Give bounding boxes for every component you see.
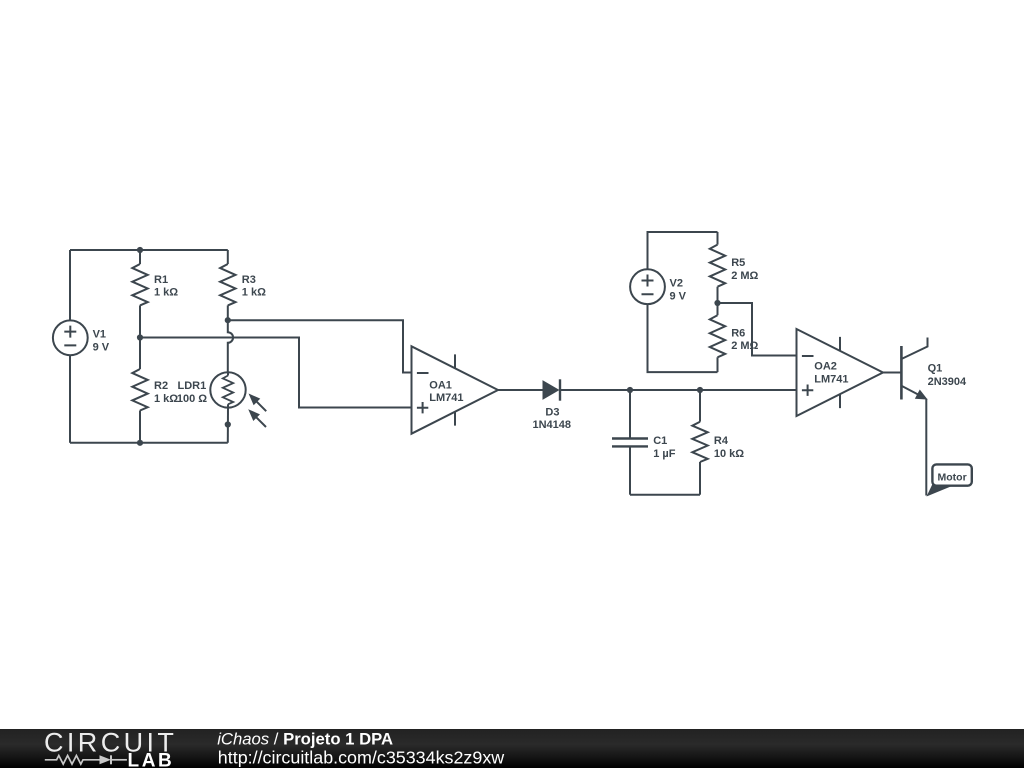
label R2 1 kOhm bbox=[154, 380, 178, 405]
svg-text:100 Ω: 100 Ω bbox=[177, 393, 207, 405]
svg-text:D3: D3 bbox=[545, 406, 559, 418]
wire OA2 output to Q1 base bbox=[883, 372, 901, 374]
svg-text:OA2: OA2 bbox=[814, 361, 837, 373]
svg-text:2 MΩ: 2 MΩ bbox=[731, 270, 758, 282]
resistor R5 bbox=[710, 232, 725, 303]
resistor R6 bbox=[710, 303, 725, 372]
wire R3 node down with hop over horizontal wire bbox=[228, 320, 233, 372]
wire from R3 node to OA1 minus input bbox=[228, 320, 412, 372]
resistor R3 bbox=[220, 250, 235, 320]
svg-text:Q1: Q1 bbox=[928, 363, 943, 375]
wire V2 bottom lead + bottom horizontal bbox=[648, 304, 718, 372]
label C1 1 uF bbox=[653, 435, 676, 460]
node R3 bottom bbox=[225, 317, 231, 323]
label R3 1 kOhm bbox=[242, 274, 266, 299]
svg-text:R4: R4 bbox=[714, 435, 729, 447]
svg-text:2 MΩ: 2 MΩ bbox=[731, 340, 758, 352]
capacitor C1 bbox=[612, 390, 648, 495]
op-amp OA2 bbox=[797, 329, 884, 416]
resistor R2 bbox=[132, 338, 147, 443]
resistor R1 bbox=[132, 250, 147, 338]
label OA1 LM741 bbox=[429, 379, 463, 404]
diode D3 bbox=[543, 379, 560, 400]
label R6 2 MOhm bbox=[731, 327, 758, 352]
svg-text:LM741: LM741 bbox=[429, 392, 463, 404]
node C1 top bbox=[627, 387, 633, 393]
wire top-left horizontal bbox=[70, 249, 228, 251]
voltage source V2 bbox=[630, 269, 665, 304]
label OA2 LM741 bbox=[814, 361, 848, 386]
svg-text:C1: C1 bbox=[653, 435, 667, 447]
wire V1 top lead bbox=[69, 250, 71, 320]
label R4 10 kOhm bbox=[714, 435, 744, 460]
svg-text:1 µF: 1 µF bbox=[653, 448, 676, 460]
label R5 2 MOhm bbox=[731, 257, 758, 282]
svg-text:Motor: Motor bbox=[938, 472, 967, 484]
svg-text:LAB: LAB bbox=[128, 751, 175, 768]
LDR1 light arrows bbox=[249, 395, 266, 428]
svg-text:LDR1: LDR1 bbox=[178, 380, 207, 392]
wire OA1 output bbox=[498, 389, 543, 391]
svg-text:LM741: LM741 bbox=[814, 373, 848, 385]
svg-text:1N4148: 1N4148 bbox=[533, 419, 572, 431]
wire bottom-left horizontal bbox=[70, 442, 228, 444]
node LDR1 bottom bbox=[225, 421, 231, 427]
label LDR1 100 Ohm bbox=[177, 380, 207, 405]
node R1 top bbox=[137, 247, 143, 253]
wire LDR1 bottom lead bbox=[227, 408, 229, 443]
voltage source V1 bbox=[53, 320, 88, 355]
wire V2 top lead + top horizontal bbox=[648, 232, 718, 269]
svg-text:1 kΩ: 1 kΩ bbox=[242, 287, 266, 299]
photoresistor LDR1 bbox=[210, 372, 245, 407]
svg-text:R3: R3 bbox=[242, 274, 256, 286]
svg-text:R6: R6 bbox=[731, 327, 745, 339]
svg-text:R5: R5 bbox=[731, 257, 745, 269]
svg-text:OA1: OA1 bbox=[429, 379, 452, 391]
logo diode bbox=[100, 755, 112, 764]
svg-text:9 V: 9 V bbox=[670, 290, 687, 302]
label V1 9 V bbox=[93, 329, 110, 354]
label D3 1N4148 bbox=[533, 406, 572, 431]
svg-text:R2: R2 bbox=[154, 380, 168, 392]
svg-text:http://circuitlab.com/c35334ks: http://circuitlab.com/c35334ks2z9xw bbox=[218, 747, 504, 767]
node R1/R2 junction bbox=[137, 334, 143, 340]
label Q1 2N3904 bbox=[928, 363, 967, 388]
wire from R1/R2 node to OA1 plus input bbox=[140, 338, 412, 408]
svg-text:iChaos / Projeto 1 DPA: iChaos / Projeto 1 DPA bbox=[217, 729, 393, 748]
wire R5/R6 node to OA2 minus input bbox=[718, 303, 797, 356]
svg-text:V2: V2 bbox=[670, 278, 683, 290]
main output wire to OA2 plus input bbox=[560, 389, 797, 391]
svg-text:9 V: 9 V bbox=[93, 341, 110, 353]
resistor R4 bbox=[692, 390, 707, 495]
svg-text:1 kΩ: 1 kΩ bbox=[154, 287, 178, 299]
svg-text:10 kΩ: 10 kΩ bbox=[714, 448, 744, 460]
svg-text:R1: R1 bbox=[154, 274, 168, 286]
flag Motor bbox=[928, 464, 972, 495]
node R4 top bbox=[697, 387, 703, 393]
node R5/R6 junction bbox=[714, 300, 720, 306]
label R1 1 kOhm bbox=[154, 274, 178, 299]
wire V1 bottom lead bbox=[69, 355, 71, 443]
svg-text:V1: V1 bbox=[93, 329, 106, 341]
op-amp OA1 bbox=[412, 346, 499, 433]
transistor Q1 bbox=[901, 338, 927, 496]
logo resistor squiggle bbox=[45, 756, 100, 765]
label V2 9 V bbox=[670, 278, 687, 303]
wire C1/R4 bottom bbox=[630, 494, 700, 496]
node R2 bottom bbox=[137, 440, 143, 446]
svg-text:1 kΩ: 1 kΩ bbox=[154, 393, 178, 405]
footer bar bbox=[0, 729, 1024, 768]
svg-text:2N3904: 2N3904 bbox=[928, 376, 967, 388]
